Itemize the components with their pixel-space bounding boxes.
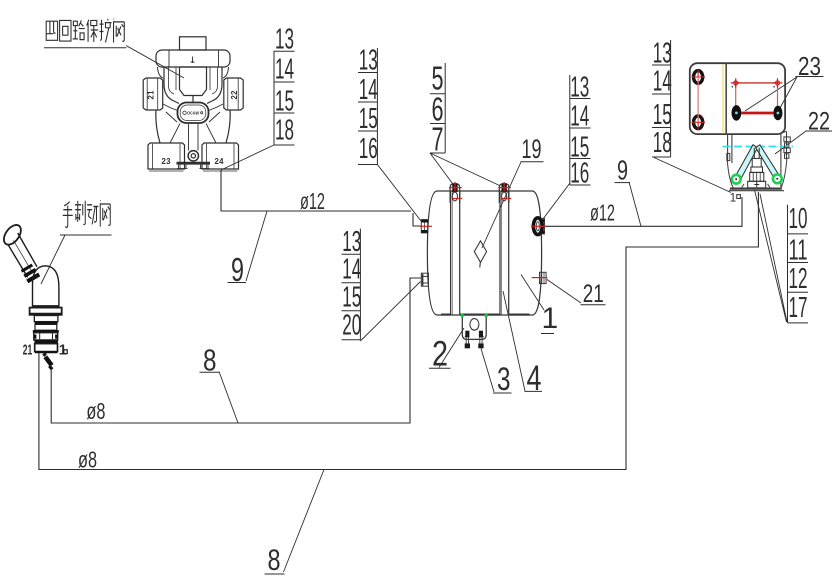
tank: air reservoir outline [427,191,541,315]
leader: 23 to plate circles [745,77,797,111]
center valve body [748,148,766,188]
node: callout 4 [525,359,543,398]
svg-text:15: 15 [359,103,378,135]
svg-text:14: 14 [653,66,672,98]
node: callout 8 (mid) [200,343,220,378]
inner cap [180,67,207,103]
node: callout 21 [581,280,606,308]
lower body sides [156,110,230,143]
node: callout 3 [493,361,512,397]
svg-text:ø8: ø8 [86,398,105,424]
strap band 1 [451,191,460,315]
top fitting A [449,182,462,203]
node: callout 9 (right) [615,155,631,186]
node: callout stack 13 14 15 18 (top-left) [274,24,295,147]
svg-text:17: 17 [789,292,808,324]
mid section [35,324,57,330]
elbow fitting [44,354,46,356]
rubber boot (black bands) [22,265,33,271]
port R1 (big flange) [531,218,546,235]
leader: 8 mid to line1 [219,372,238,424]
plate hole ring 1 [692,69,706,85]
svg-text:21: 21 [23,343,33,359]
wire: tank R1 to right assembly (o12 pipe right) [545,197,742,226]
node: callout stack 13 14 15 20 [342,226,362,342]
node: callout 2 [429,334,451,373]
leader: stack 13-14-15-16 right to tank port R1 [543,183,570,219]
black mount holes with teal centers [732,105,783,121]
lower bracket left edge [728,134,732,163]
left port 21 [143,78,163,110]
drain bracket [461,314,488,340]
shoulders [158,67,229,78]
svg-text:4: 4 [527,359,542,398]
bottom block 23 [148,143,185,169]
gray fold line [725,63,727,134]
tiny dots [732,86,734,88]
flange [30,308,62,315]
strap band 2 [500,191,509,315]
logo plate [178,103,209,124]
svg-text:11: 11 [789,235,808,267]
leader: stack 13-14-15-18 left to port 24 [221,145,274,170]
wire: hand valve to right relay valve (o8 pipe line2) [39,192,759,470]
svg-text:18: 18 [653,127,672,159]
red thick bottom line [741,112,773,115]
bracket plate (top view) [690,63,785,134]
ribbed fitting on right edge [784,137,790,158]
svg-text:1: 1 [730,193,736,205]
svg-text:14: 14 [275,54,294,86]
svg-text:OCAW: OCAW [187,111,199,117]
spring towers [169,67,218,94]
center grommet [188,151,198,161]
leader: 22 to bracket [775,131,806,154]
leader: 9 right to o12 pipe [629,182,641,226]
node: callout stack 13 14 15 18 (right) [652,38,672,160]
leader: stack 10-11-12-17 to valve [755,190,788,322]
svg-text:ø12: ø12 [590,200,615,226]
pivot circle right (green) [773,174,782,183]
svg-text:2: 2 [432,334,448,373]
svg-text:21: 21 [583,280,604,308]
neck [34,316,58,322]
right port 22 [224,78,243,110]
port L2 [421,273,428,286]
yellow fold line [722,64,724,133]
label: hand brake valve text [60,201,112,235]
leader: stack 13-14-15-16 left to tank port L1 [377,165,421,222]
svg-text:12: 12 [789,263,808,295]
dome [33,266,59,306]
red connecting line left [697,77,699,122]
leader: 1 to tank [521,275,544,311]
tank bottom edge (thick) [441,314,530,316]
node: callout 22 [806,108,833,136]
leader: 21 to tank port R2 [547,280,581,304]
svg-text:20: 20 [342,310,361,342]
leader: stack 13-14-15-20 to tank port L2 [360,282,420,342]
svg-text:19: 19 [522,134,542,164]
svg-text:16: 16 [359,133,378,165]
V strut left (cyan) [734,145,757,182]
node: callout stack 5 6 7 [430,60,445,158]
node: callout 23 [796,51,824,81]
svg-text:24: 24 [215,157,225,166]
svg-text:13: 13 [359,45,378,77]
bottom block 24 [202,143,239,169]
cyan level dashed line [723,146,794,148]
diamond decal 19 [474,241,486,268]
leader: 9 left to o12 pipe [246,211,267,281]
block row [34,333,58,340]
base [35,344,58,352]
leader: label hand brake valve [41,235,65,284]
svg-text:3: 3 [497,361,511,397]
svg-text:ø8: ø8 [78,447,97,473]
leader: label four-circuit valve [126,46,184,79]
red corner circles [731,78,783,87]
waist webs [163,104,223,111]
red rectangle marking [736,83,778,109]
top fitting B [498,182,511,203]
leader: 4 to strap [503,291,525,391]
leader: 2 to drain bracket [439,328,464,368]
leader: stack 13-14-15-18 right to 1o port [654,158,731,193]
svg-text:10: 10 [789,203,808,235]
lever shaft [8,233,37,277]
svg-text:1: 1 [542,302,559,335]
node: callout stack 13 14 15 16 (right of tank) [570,72,591,190]
valve: hand brake valve [0,222,67,369]
base bar [177,162,211,165]
node: callout 8 (bottom) [265,544,285,577]
svg-text:18: 18 [275,115,294,147]
drain bolt 1 [465,331,470,349]
svg-text:1: 1 [59,343,67,359]
node: callout 19 [521,134,544,164]
port R2 [532,272,548,283]
plate hole ring 2 [692,115,706,131]
valve: four-circuit protection valve body [143,37,243,171]
wire: hand valve to tank L2 (o8 pipe line1) [51,278,421,423]
svg-text:7: 7 [432,120,444,157]
pivot circle left (green) [732,175,741,184]
label: four-circuit protection valve text [44,19,127,48]
port L1 [420,220,432,233]
svg-text:9: 9 [617,155,628,186]
leader: 8 bottom to line2 [284,470,325,573]
node: callout 9 (left) [228,251,247,288]
leader: 3 to drain bolt [481,349,494,393]
leader: stack 5-6-7 to top fittings [430,153,500,186]
svg-text:ø12: ø12 [300,188,325,214]
lower bracket right edge [781,132,787,188]
svg-text:23: 23 [162,157,172,166]
svg-text:8: 8 [268,544,281,577]
V strut right (cyan) [756,145,781,181]
upper body sides [164,67,222,104]
dome bottom band [32,305,60,308]
wire: 4-circuit valve port24 to tank port L1 (o12 pipe) [221,170,421,226]
node: callout stack 13 14 15 16 (mid-left) [358,45,378,166]
top flange [156,50,230,67]
leader: 19 to diamond decal [482,162,521,248]
node: callout stack 10 11 12 17 [788,203,809,324]
top cap [180,37,207,50]
svg-text:21: 21 [147,90,156,100]
svg-text:14: 14 [342,253,361,285]
svg-text:14: 14 [359,74,378,106]
node: callout 1 [541,302,558,335]
svg-text:22: 22 [230,90,239,100]
bracket base [730,188,782,190]
lever knob [0,222,24,248]
drain bolt 2 [478,331,483,349]
